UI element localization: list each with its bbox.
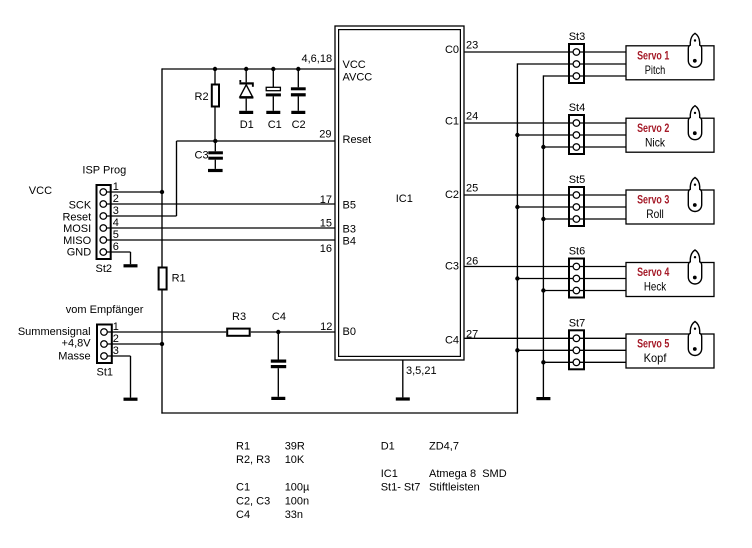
svg-text:Servo 5: Servo 5 xyxy=(637,337,669,351)
svg-text:C2, C3: C2, C3 xyxy=(236,495,270,507)
svg-text:17: 17 xyxy=(320,194,332,206)
svg-text:C2: C2 xyxy=(292,119,306,131)
svg-text:ZD4,7: ZD4,7 xyxy=(429,441,459,453)
svg-text:6: 6 xyxy=(113,241,119,253)
svg-text:3: 3 xyxy=(113,345,119,357)
svg-text:25: 25 xyxy=(466,183,478,195)
svg-text:Servo 3: Servo 3 xyxy=(637,193,669,207)
svg-text:B0: B0 xyxy=(343,326,356,338)
svg-text:16: 16 xyxy=(320,243,332,255)
svg-text:R1: R1 xyxy=(172,273,186,285)
svg-text:1: 1 xyxy=(113,321,119,333)
svg-text:R2: R2 xyxy=(195,91,209,103)
svg-text:D1: D1 xyxy=(240,119,254,131)
svg-text:C3: C3 xyxy=(195,149,209,161)
svg-text:29: 29 xyxy=(319,129,331,141)
svg-text:St5: St5 xyxy=(569,174,586,186)
svg-text:C2: C2 xyxy=(445,189,459,201)
svg-text:R1: R1 xyxy=(236,441,250,453)
svg-text:B5: B5 xyxy=(343,199,356,211)
svg-text:IC1: IC1 xyxy=(396,193,413,205)
svg-text:B4: B4 xyxy=(343,236,356,248)
svg-text:B3: B3 xyxy=(343,223,356,235)
svg-text:12: 12 xyxy=(320,321,332,333)
svg-text:R3: R3 xyxy=(232,311,246,323)
svg-text:15: 15 xyxy=(320,218,332,230)
svg-text:VCC: VCC xyxy=(343,59,366,71)
svg-text:1: 1 xyxy=(113,181,119,193)
svg-text:Roll: Roll xyxy=(646,207,664,221)
svg-text:2: 2 xyxy=(113,333,119,345)
svg-text:C3: C3 xyxy=(445,261,459,273)
svg-text:SCK: SCK xyxy=(69,200,92,212)
svg-text:Summensignal: Summensignal xyxy=(18,326,91,338)
svg-text:St7: St7 xyxy=(569,317,586,329)
svg-text:24: 24 xyxy=(466,111,478,123)
svg-text:St4: St4 xyxy=(569,102,586,114)
svg-text:C1: C1 xyxy=(445,116,459,128)
svg-text:3: 3 xyxy=(113,205,119,217)
svg-text:Stiftleisten: Stiftleisten xyxy=(429,482,480,494)
svg-text:St1: St1 xyxy=(97,367,114,379)
svg-text:5: 5 xyxy=(113,229,119,241)
svg-text:39R: 39R xyxy=(285,441,305,453)
svg-text:MOSI: MOSI xyxy=(63,223,91,235)
svg-text:C4: C4 xyxy=(272,311,286,323)
svg-text:+4,8V: +4,8V xyxy=(62,338,92,350)
svg-text:Masse: Masse xyxy=(58,351,90,363)
svg-text:Nick: Nick xyxy=(645,135,666,149)
svg-text:St2: St2 xyxy=(96,263,113,275)
svg-text:VCC: VCC xyxy=(29,185,52,197)
svg-text:10K: 10K xyxy=(285,454,305,466)
svg-text:27: 27 xyxy=(466,329,478,341)
svg-text:D1: D1 xyxy=(381,441,395,453)
svg-text:23: 23 xyxy=(466,39,478,51)
svg-text:GND: GND xyxy=(67,247,92,259)
svg-text:3,5,21: 3,5,21 xyxy=(406,365,437,377)
svg-text:2: 2 xyxy=(113,193,119,205)
svg-text:Atmega 8 SMD: Atmega 8 SMD xyxy=(429,468,507,480)
svg-text:Servo 1: Servo 1 xyxy=(637,48,669,62)
svg-text:AVCC: AVCC xyxy=(343,72,373,84)
svg-text:ISP Prog: ISP Prog xyxy=(82,165,126,177)
svg-text:26: 26 xyxy=(466,255,478,267)
svg-text:Reset: Reset xyxy=(343,134,372,146)
svg-text:Servo 2: Servo 2 xyxy=(637,121,669,135)
svg-text:St1- St7: St1- St7 xyxy=(381,482,421,494)
svg-text:C4: C4 xyxy=(445,335,459,347)
svg-text:100µ: 100µ xyxy=(285,482,310,494)
svg-text:Heck: Heck xyxy=(644,280,667,294)
svg-text:C4: C4 xyxy=(236,509,250,521)
svg-text:Reset: Reset xyxy=(62,212,91,224)
svg-text:St6: St6 xyxy=(569,246,586,258)
svg-text:4,6,18: 4,6,18 xyxy=(302,53,333,65)
svg-text:vom Empfänger: vom Empfänger xyxy=(66,304,144,316)
svg-text:C1: C1 xyxy=(236,482,250,494)
svg-text:MISO: MISO xyxy=(63,235,92,247)
svg-text:Pitch: Pitch xyxy=(645,63,666,77)
svg-text:C0: C0 xyxy=(445,44,459,56)
svg-text:R2, R3: R2, R3 xyxy=(236,454,270,466)
svg-text:St3: St3 xyxy=(569,31,586,43)
svg-text:Servo 4: Servo 4 xyxy=(637,265,669,279)
svg-text:100n: 100n xyxy=(285,495,309,507)
svg-text:C1: C1 xyxy=(268,119,282,131)
svg-text:33n: 33n xyxy=(285,509,303,521)
svg-text:Kopf: Kopf xyxy=(644,351,667,365)
svg-text:4: 4 xyxy=(113,217,119,229)
svg-text:IC1: IC1 xyxy=(381,468,398,480)
